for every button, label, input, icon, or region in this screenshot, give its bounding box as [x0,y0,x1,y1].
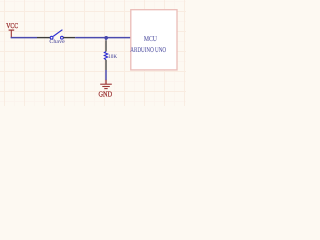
svg-text:10K: 10K [108,54,117,60]
svg-text:GND: GND [99,89,113,98]
wire switch to MCU [75,37,131,39]
VCC bar [9,29,15,31]
switch SW1 (Chave) [37,30,75,45]
MCU box (subcircuit) [130,10,177,70]
zigzag body [104,51,107,59]
svg-text:ARDUINO UNO: ARDUINO UNO [130,45,166,54]
wire VCC to switch [11,37,37,39]
pin 1 [37,37,50,39]
power symbol VCC [6,22,18,37]
svg-text:VCC: VCC [6,22,18,30]
svg-text:MCU: MCU [144,34,158,43]
VCC pin [10,30,12,37]
pin bottom [105,60,107,70]
gnd bar 2 [102,86,110,88]
wire junction down to resistor [105,38,107,41]
lever [53,30,62,37]
contact circle right [61,36,64,39]
resistor R1 10K [104,40,117,70]
gnd bar 1 [100,83,112,85]
ground [99,80,113,99]
pin top [105,40,107,51]
junction node [104,36,108,40]
gnd bar 3 [104,88,107,90]
contact circle left [50,36,53,39]
gnd pin [105,80,107,84]
wire resistor to ground [105,70,107,80]
svg-text:Chave: Chave [49,39,65,45]
pin 2 [63,37,75,39]
